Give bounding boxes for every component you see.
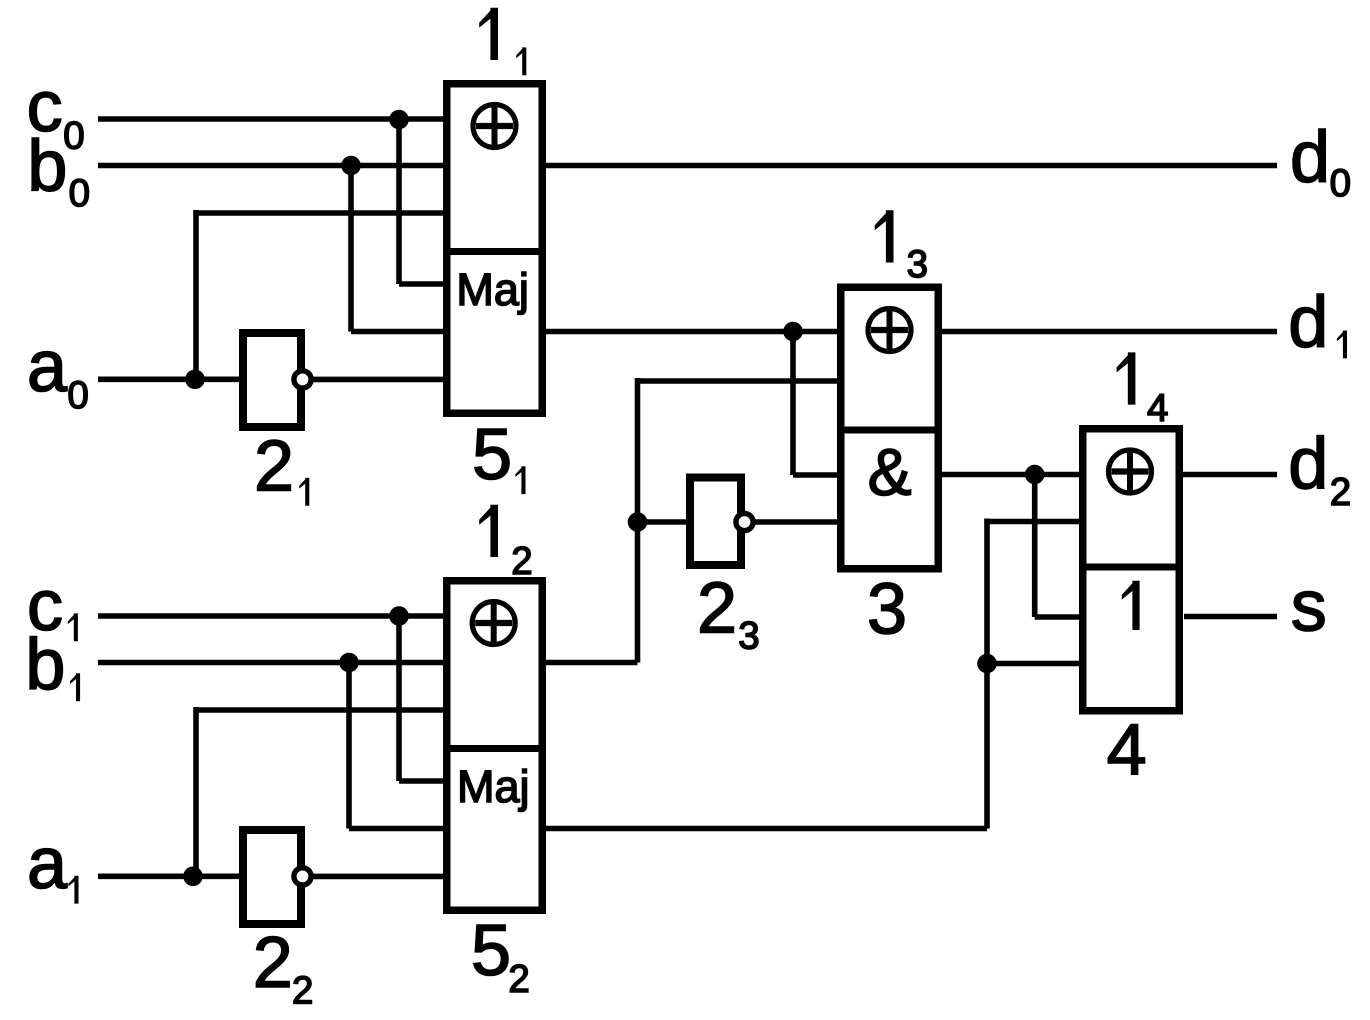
svg-text:a: a xyxy=(27,824,68,904)
wire c0 branch into Maj 5_1 xyxy=(399,281,443,287)
svg-text:4: 4 xyxy=(1147,387,1168,430)
designator 1_2 of XOR U2 xyxy=(479,505,498,557)
svg-text:0: 0 xyxy=(69,172,90,215)
designator 1_3 of XOR U3 xyxy=(875,210,894,262)
wire inverter 2_3 input xyxy=(638,519,687,525)
inverter bubble Q-inv 2_1 xyxy=(294,371,311,388)
node a0 junction xyxy=(185,370,205,390)
inverter bubble Q-inv 2_2 xyxy=(294,868,311,885)
wire d1 net xyxy=(545,329,1277,335)
wire Maj 5_2 tap into OR 4 xyxy=(987,661,1079,667)
input label b1 subscript xyxy=(70,673,80,701)
wire b1 branch into Maj 5_2 xyxy=(349,826,443,832)
wire b0 branch into Maj 5_1 xyxy=(351,329,443,335)
svg-text:3: 3 xyxy=(867,569,907,649)
cell divider U4 (1_4/4) xyxy=(1079,564,1183,571)
svg-text:5: 5 xyxy=(471,911,511,991)
svg-text:0: 0 xyxy=(67,374,88,417)
wire a0 branch to XOR 1_1 xyxy=(196,210,443,216)
wire b0 branch vertical xyxy=(348,166,354,332)
wire into AND 3 xyxy=(793,472,838,478)
wire Maj 5_2 output vertical riser xyxy=(984,519,990,829)
cell box U3 (1_3/3) xyxy=(841,287,939,569)
svg-text:2: 2 xyxy=(253,923,293,1003)
wire Maj 5_2 tap into XOR 1_4 xyxy=(987,519,1079,525)
node d1 junction xyxy=(783,322,803,342)
svg-text:s: s xyxy=(1291,566,1327,646)
input label a1 subscript xyxy=(68,876,78,904)
inverter box Q-inv 2_1 xyxy=(243,333,301,427)
wire a1 input xyxy=(98,873,240,879)
node AND 3 output junction xyxy=(1025,465,1045,485)
svg-text:0: 0 xyxy=(1330,162,1351,205)
node c0 junction xyxy=(389,110,409,130)
wire b1 branch vertical xyxy=(346,663,352,829)
svg-text:4: 4 xyxy=(1107,710,1147,790)
designator 1_1 of XOR U1 xyxy=(479,8,498,60)
wire inverter 2_1 output xyxy=(313,377,443,383)
wire inverter 2_2 output xyxy=(313,874,443,880)
wire a0 branch vertical xyxy=(193,210,199,379)
node a1 junction xyxy=(183,867,203,887)
cell box U2 (1_2/5_2) xyxy=(447,581,543,911)
node Maj 5_2 output junction xyxy=(977,654,997,674)
svg-text:a: a xyxy=(27,327,68,407)
designator 1_4 of XOR U4 xyxy=(1117,352,1136,404)
wire b0 input xyxy=(98,163,443,169)
wire b1 input xyxy=(98,660,443,666)
svg-text:2: 2 xyxy=(292,969,313,1012)
svg-text:Maj: Maj xyxy=(457,761,530,812)
designator 5_1 subscript xyxy=(515,466,525,494)
designator 1_1 subscript xyxy=(516,47,526,75)
wire Maj 5_2 output xyxy=(545,826,987,832)
svg-text:2: 2 xyxy=(508,958,529,1001)
wire c1 input xyxy=(98,613,443,619)
XOR symbol U3 xyxy=(868,309,911,352)
inverter box Q-inv 2_2 xyxy=(243,830,301,924)
wire into OR 4 xyxy=(1035,614,1079,620)
wire a1 branch to XOR 1_2 xyxy=(196,707,443,713)
wire AND 3 tap vertical to OR 4 xyxy=(1032,475,1038,618)
cell box U1 (1_1/5_1) xyxy=(447,84,543,414)
wire a1 branch vertical xyxy=(193,707,199,876)
wire a0 input xyxy=(98,376,240,382)
node b1 junction xyxy=(339,653,359,673)
wire d1 tap vertical to AND 3 xyxy=(790,332,796,476)
svg-text:3: 3 xyxy=(738,615,759,658)
svg-text:&: & xyxy=(868,435,912,509)
wire XOR 1_2 output xyxy=(545,660,638,666)
wire c0 input xyxy=(98,116,443,122)
svg-text:2: 2 xyxy=(1330,471,1351,514)
cell divider U3 (1_3/3) xyxy=(837,427,942,434)
OR function label U4 xyxy=(1122,581,1140,630)
svg-text:b: b xyxy=(27,127,67,207)
wire XOR 1_2 output vertical riser xyxy=(635,378,641,663)
XOR symbol U2 xyxy=(472,602,515,645)
inverter bubble Q-inv 2_3 xyxy=(736,513,753,530)
inverter box Q-inv 2_3 xyxy=(690,478,741,566)
svg-text:3: 3 xyxy=(907,243,928,286)
wire c1 branch into Maj 5_2 xyxy=(399,778,443,784)
svg-text:5: 5 xyxy=(472,415,512,495)
svg-text:b: b xyxy=(25,625,65,705)
XOR symbol U1 xyxy=(473,105,516,148)
svg-text:d: d xyxy=(1290,118,1330,198)
svg-text:d: d xyxy=(1288,282,1328,362)
cell divider U2 (1_2/5_2) xyxy=(443,745,546,752)
designator 2_1 subscript xyxy=(299,478,309,506)
cell box U4 (1_4/4) xyxy=(1083,429,1180,711)
svg-text:2: 2 xyxy=(254,427,294,507)
node c1 junction xyxy=(389,606,409,626)
wire inverter 2_3 output to AND 3 xyxy=(755,519,838,525)
wire into XOR 1_3 xyxy=(638,378,839,384)
wire d0 output xyxy=(545,163,1277,169)
svg-text:2: 2 xyxy=(511,540,532,583)
svg-text:d: d xyxy=(1288,424,1328,504)
node b0 junction xyxy=(341,156,361,176)
cell divider U1 (1_1/5_1) xyxy=(443,248,546,255)
wire c1 branch vertical xyxy=(396,616,402,781)
wire s output xyxy=(1184,614,1277,620)
wire AND 3 output / d2 net xyxy=(941,472,1277,478)
wire c0 branch vertical xyxy=(396,119,402,284)
svg-text:Maj: Maj xyxy=(456,264,529,315)
node XOR 1_2 output junction xyxy=(628,512,648,532)
XOR symbol U4 xyxy=(1109,450,1152,493)
output label d1 subscript xyxy=(1337,331,1347,359)
input label c1 subscript xyxy=(68,613,78,641)
svg-text:2: 2 xyxy=(697,569,737,649)
